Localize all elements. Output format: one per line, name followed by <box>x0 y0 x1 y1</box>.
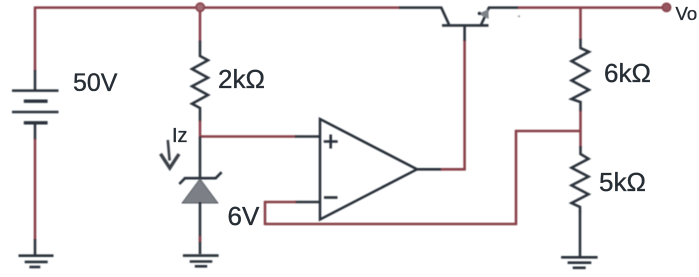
wire 6k top lead from rail <box>579 8 582 40</box>
transistor emitter arrow <box>478 9 489 19</box>
minus input marking <box>324 196 338 199</box>
ground left <box>19 239 54 267</box>
ground right <box>561 257 598 268</box>
wire 5k bottom to ground <box>579 211 582 257</box>
wire plus-input horizontal maroon <box>199 135 296 138</box>
node junction dot top rail <box>196 3 204 11</box>
svg-text:6V: 6V <box>228 201 260 231</box>
wire base lead dark <box>463 26 466 41</box>
wire rail dark after transistor <box>488 6 519 9</box>
artifact small dot <box>518 15 520 17</box>
svg-text:Iz: Iz <box>172 125 188 147</box>
wire feedback riser <box>515 130 518 225</box>
wire battery top lead <box>34 70 37 90</box>
wire bottom feedback horizontal <box>264 223 517 226</box>
node Vo terminal dot <box>662 3 670 11</box>
battery 50V <box>12 91 59 123</box>
wire 2k bottom to node <box>199 121 202 138</box>
wire battery bottom lead <box>34 124 37 140</box>
wire feedback top horizontal to divider node <box>515 130 581 133</box>
ground zener <box>183 256 219 267</box>
resistor R 6kOhm <box>572 39 590 112</box>
wire top rail right segment <box>518 6 664 9</box>
diode zener <box>179 172 221 203</box>
transistor Q pass <box>441 7 489 25</box>
resistor R 2kOhm <box>192 41 208 122</box>
wire op-amp output dark lead <box>416 168 442 171</box>
wire left vertical to ground <box>34 139 37 240</box>
wire zener anode to ground <box>199 202 202 254</box>
op-amp U1 <box>320 119 417 220</box>
wire base riser <box>463 40 466 170</box>
wire rail dark before transistor <box>399 6 442 9</box>
arrow Iz current <box>161 140 180 168</box>
wire left vertical drop to battery <box>34 7 37 71</box>
svg-text:6kΩ: 6kΩ <box>604 58 651 88</box>
resistor R 5kOhm <box>572 146 589 212</box>
plus input marking <box>324 135 338 149</box>
wire minus-input maroon to 6V corner <box>264 201 296 204</box>
wire artifact maroon dot <box>199 237 202 242</box>
wire top rail left segment <box>34 6 400 9</box>
wire 6V corner vertical <box>264 201 267 225</box>
wire 2k top lead from rail <box>199 11 202 42</box>
svg-text:50V: 50V <box>73 69 118 97</box>
svg-text:2kΩ: 2kΩ <box>218 64 265 94</box>
wire plus-input lead dark <box>295 135 321 138</box>
svg-text:5kΩ: 5kΩ <box>599 167 646 197</box>
wire op-amp output maroon <box>441 168 466 171</box>
wire node to zener cathode <box>199 137 202 179</box>
wire minus-input lead dark <box>295 201 321 204</box>
wire 6k bottom to divider node <box>579 111 582 147</box>
svg-text:Vo: Vo <box>676 3 698 24</box>
